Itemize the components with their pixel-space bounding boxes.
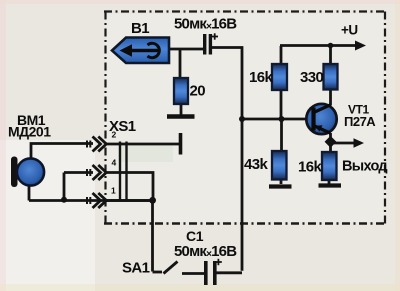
svg-text:43k: 43k xyxy=(244,156,268,173)
svg-text:20: 20 xyxy=(190,83,206,100)
svg-text:50мк×16В: 50мк×16В xyxy=(174,243,237,260)
svg-text:П27А: П27А xyxy=(344,114,376,129)
svg-text:МД201: МД201 xyxy=(8,124,51,140)
svg-text:B1: B1 xyxy=(131,20,149,37)
svg-text:330: 330 xyxy=(300,69,323,86)
svg-text:Выход: Выход xyxy=(342,159,387,175)
svg-text:4: 4 xyxy=(112,158,117,168)
svg-text:SA1: SA1 xyxy=(122,260,150,277)
svg-text:+U: +U xyxy=(341,23,358,38)
svg-text:16k: 16k xyxy=(249,69,273,86)
svg-text:С1: С1 xyxy=(186,228,204,244)
svg-text:16k: 16k xyxy=(298,159,322,176)
svg-text:1: 1 xyxy=(111,186,116,196)
svg-text:50мк×16В: 50мк×16В xyxy=(174,16,237,33)
svg-text:2: 2 xyxy=(112,130,117,140)
